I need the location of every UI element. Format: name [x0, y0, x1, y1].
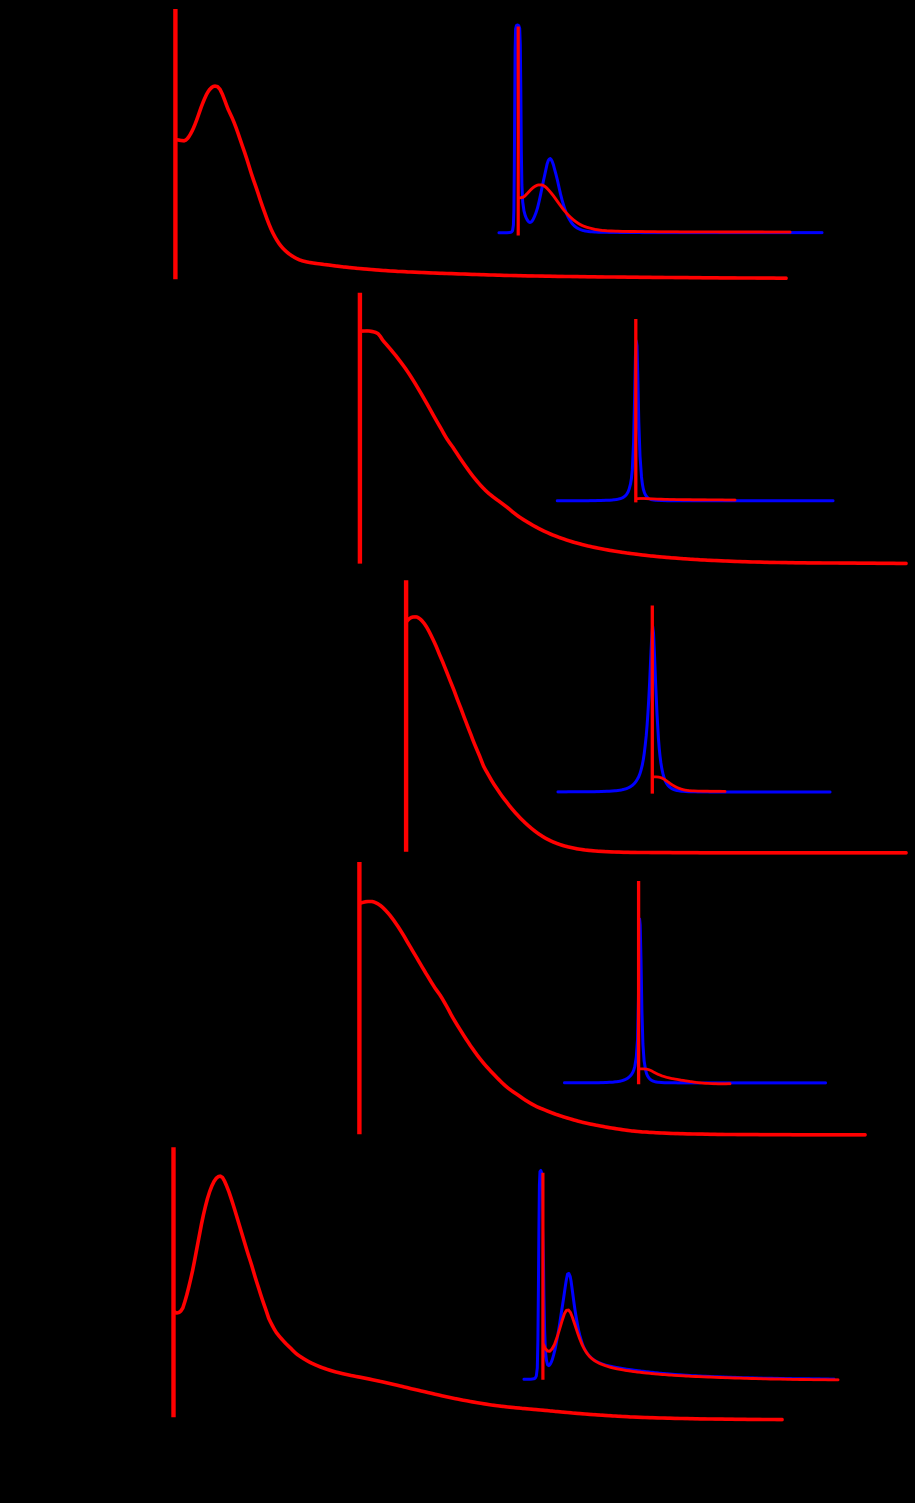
panel 5 inset red delta line: [541, 1173, 544, 1380]
panel 1 red delta line at omega=0: [173, 9, 177, 279]
panel 5 inset blue full spectral curve with spike: [524, 1171, 834, 1380]
panel 4 inset red delta line: [637, 881, 640, 1084]
panel 1 inset red incoherent background curve: [519, 185, 790, 232]
panel 2 red delta line at omega=0: [358, 293, 362, 564]
panel 5 red main spectral function curve: [174, 1176, 782, 1419]
panel 1 inset blue full spectral curve with quasiparticle spike: [499, 25, 822, 233]
panel 1 inset red delta line: [517, 27, 520, 236]
panel 3 red main spectral function curve: [406, 617, 906, 853]
panel 2 inset red delta line: [634, 319, 637, 502]
panel 3 inset blue quasiparticle peak curve: [558, 627, 830, 793]
panel 2 red main spectral function curve: [360, 331, 906, 564]
panel 4 red delta line at omega=0: [357, 862, 361, 1134]
panel 2 inset blue quasiparticle peak curve: [557, 340, 833, 501]
panel 2 inset red tail stub: [636, 499, 735, 501]
panel 4 inset blue quasiparticle peak curve: [565, 919, 826, 1083]
panel 5 inset red incoherent curve: [543, 1310, 838, 1380]
panel 1 red main spectral function curve: [176, 86, 786, 278]
panel 5 red delta line at omega=0: [171, 1147, 175, 1417]
panel 3 inset red incoherent stub: [653, 777, 726, 792]
panel 3 inset red delta line: [651, 606, 654, 794]
panel 4 red main spectral function curve: [360, 902, 865, 1135]
panel 4 inset red incoherent stub: [639, 1069, 730, 1084]
panel 3 red delta line at omega=0: [404, 580, 408, 852]
